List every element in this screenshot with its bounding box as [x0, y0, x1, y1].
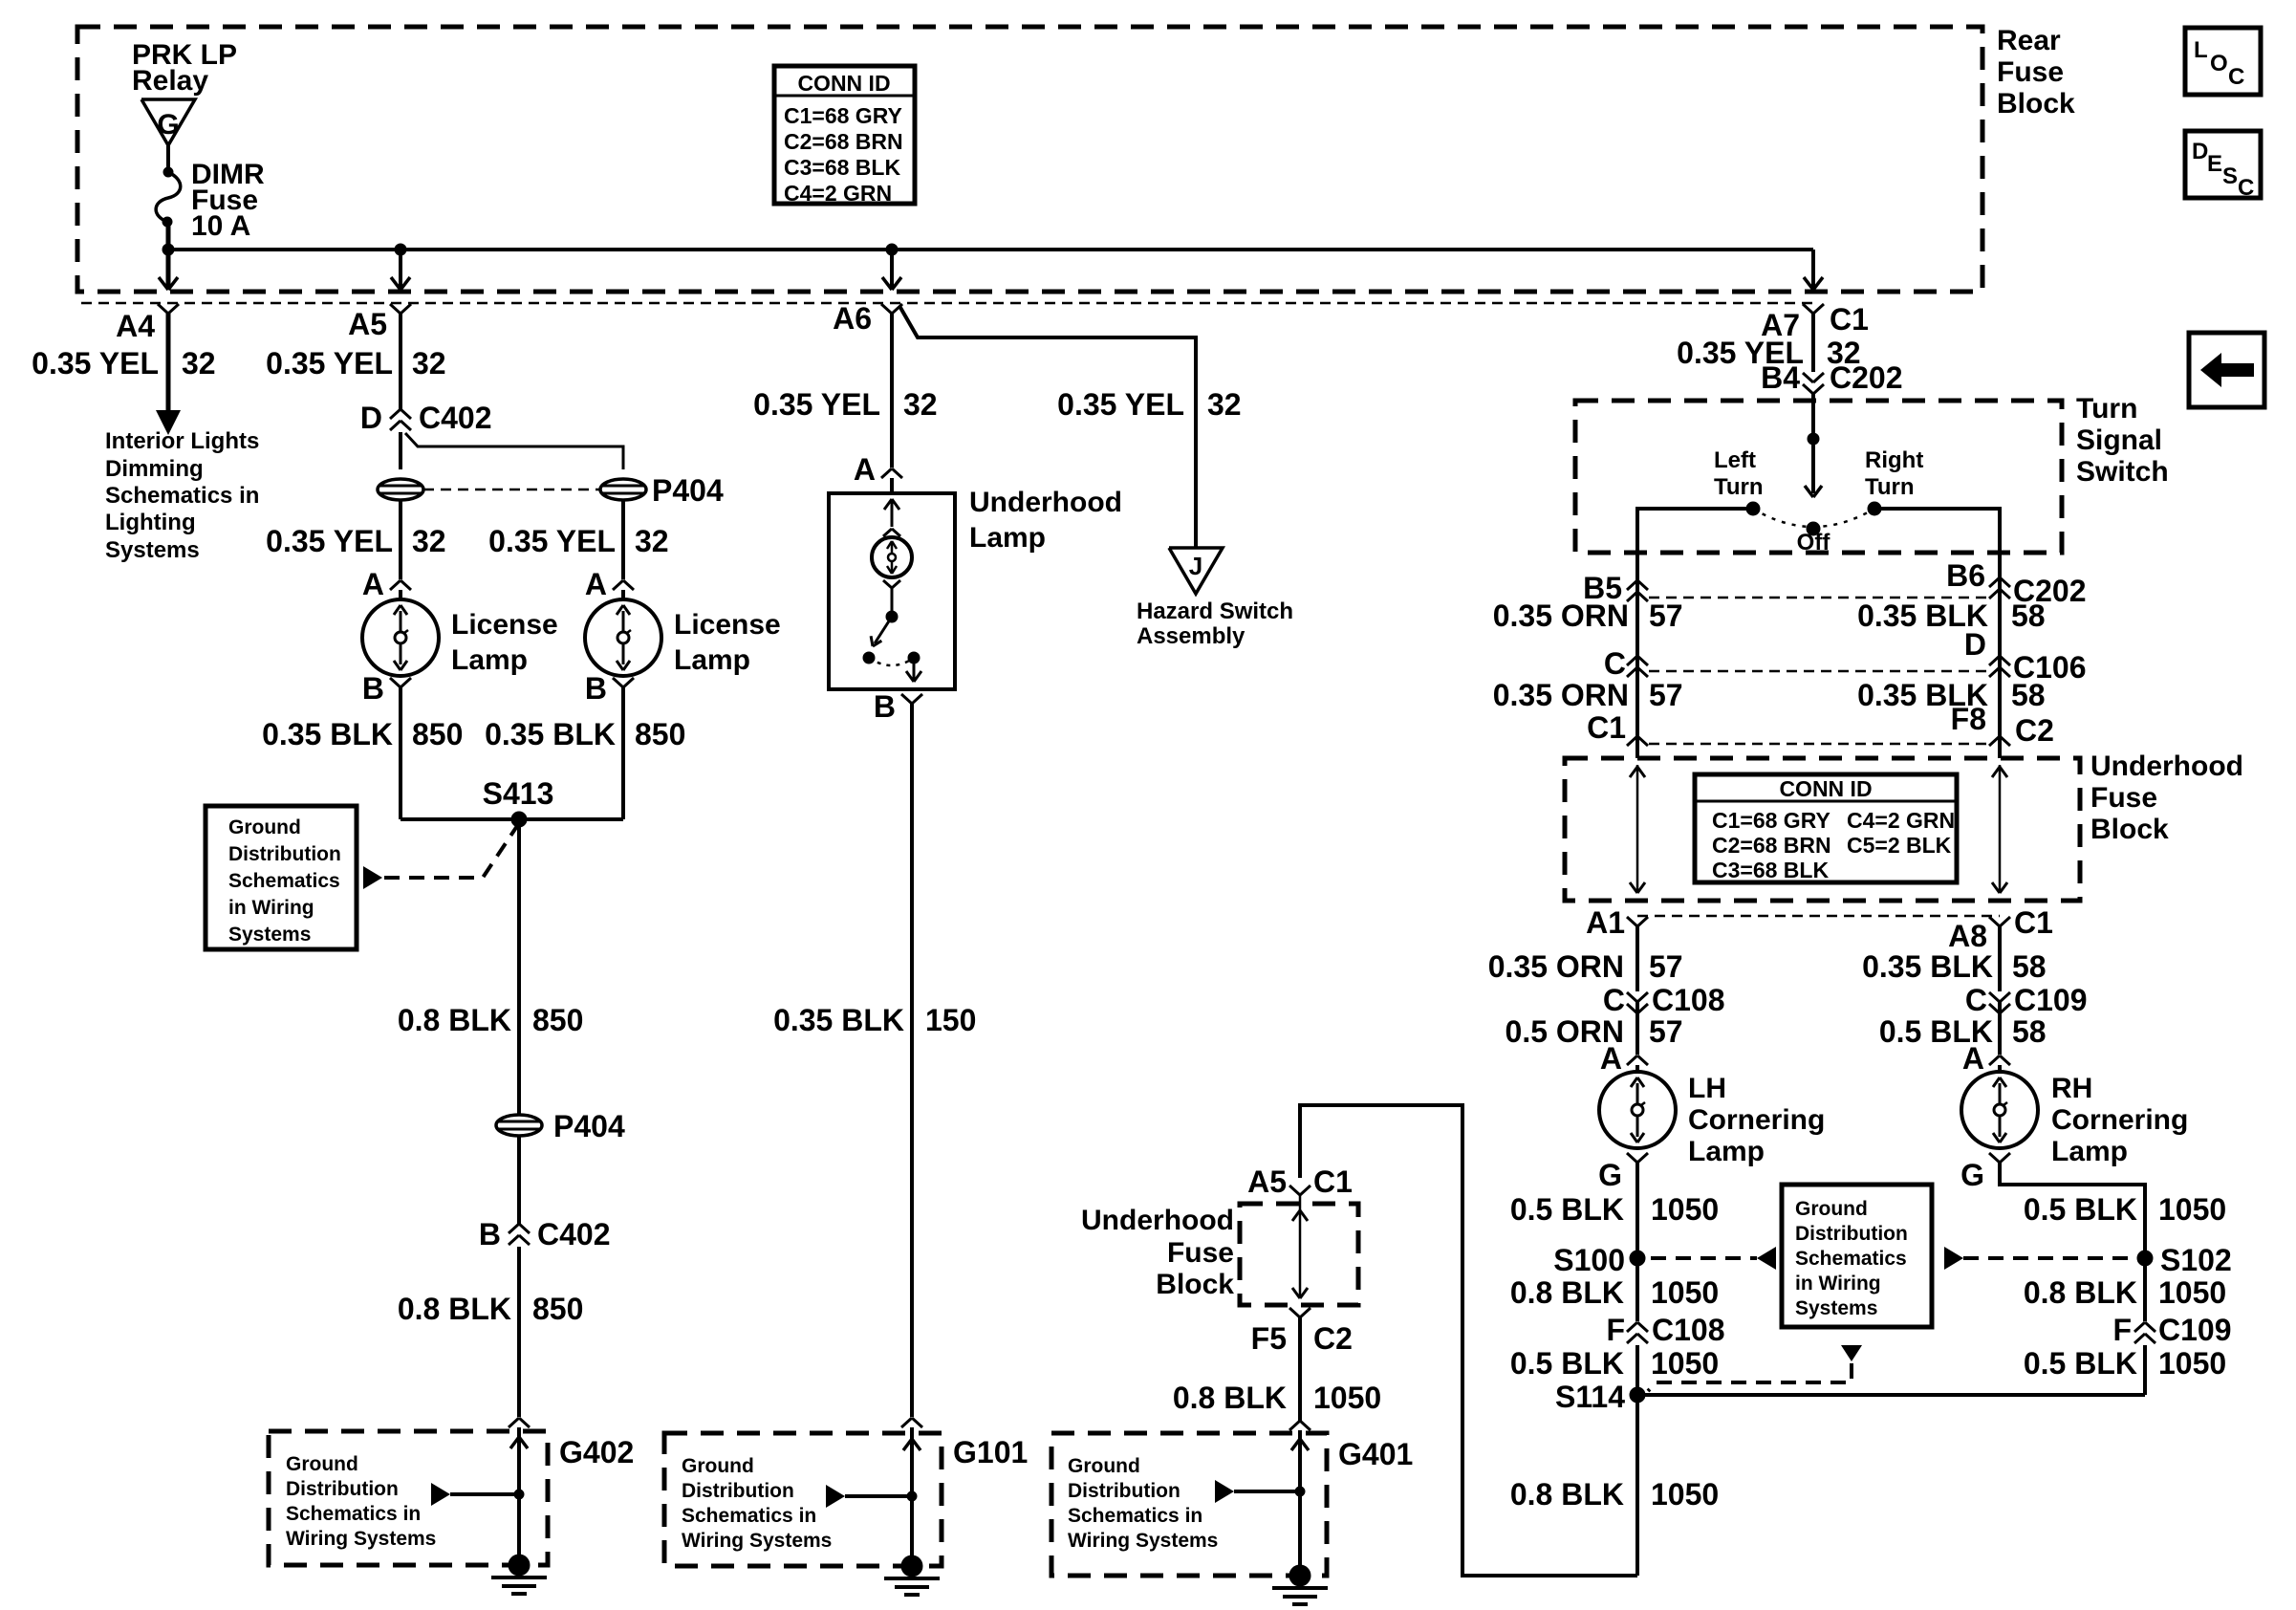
svg-text:Schematics in: Schematics in — [105, 483, 259, 509]
wire 0.8 BLK 1050 RH — [2143, 1258, 2147, 1321]
svg-text:Lamp: Lamp — [674, 644, 750, 676]
svg-text:0.8 BLK: 0.8 BLK — [1510, 1275, 1624, 1310]
svg-text:Block: Block — [1997, 88, 2075, 120]
connector C C108 — [1627, 992, 1637, 1002]
svg-text:0.35 BLK: 0.35 BLK — [485, 717, 616, 751]
svg-text:0.8 BLK: 0.8 BLK — [1173, 1381, 1287, 1415]
svg-text:C4=2 GRN: C4=2 GRN — [784, 181, 892, 206]
svg-text:C1: C1 — [2014, 905, 2053, 940]
connector into G402 — [509, 1418, 519, 1427]
connector B4 C202 — [1803, 373, 1813, 382]
svg-text:Schematics in: Schematics in — [682, 1505, 816, 1527]
wire 0.5 BLK 1050 LH — [1635, 1163, 1639, 1258]
connector F5 C2 — [1289, 1308, 1300, 1317]
svg-text:A6: A6 — [833, 301, 872, 336]
svg-text:Lamp: Lamp — [969, 522, 1046, 554]
ground G402 — [509, 1555, 530, 1576]
svg-text:0.35 BLK: 0.35 BLK — [1862, 949, 1993, 984]
svg-text:C: C — [2228, 64, 2244, 90]
svg-text:C2=68 BRN: C2=68 BRN — [1712, 833, 1831, 858]
svg-text:Switch: Switch — [2076, 456, 2169, 488]
pin A LH cornering lamp — [1627, 1055, 1637, 1065]
svg-text:Systems: Systems — [1795, 1297, 1877, 1319]
switch arc — [1753, 509, 1874, 527]
svg-text:10 A: 10 A — [191, 210, 250, 242]
svg-text:Lamp: Lamp — [2051, 1136, 2128, 1167]
wire left license lamp 0.35 YEL 32 — [399, 500, 402, 579]
svg-text:0.5 BLK: 0.5 BLK — [1510, 1346, 1624, 1381]
svg-text:Hazard Switch: Hazard Switch — [1137, 598, 1293, 624]
svg-text:A5: A5 — [1247, 1164, 1287, 1199]
svg-text:Schematics: Schematics — [228, 870, 340, 892]
svg-text:1050: 1050 — [1651, 1192, 1719, 1227]
svg-text:License: License — [451, 609, 558, 641]
svg-text:G401: G401 — [1338, 1437, 1413, 1471]
connector D C106 right — [1989, 656, 2000, 665]
svg-text:Fuse: Fuse — [1997, 56, 2064, 88]
wire drop A4 with arrow — [166, 250, 171, 289]
G101 leader arrow — [826, 1485, 845, 1508]
connector B6 C202 — [1989, 577, 2000, 587]
svg-text:0.5 BLK: 0.5 BLK — [1510, 1192, 1624, 1227]
svg-text:LH: LH — [1688, 1073, 1726, 1104]
pin B underhood lamp — [901, 694, 912, 704]
underhood lamp bulb — [872, 537, 912, 577]
svg-text:C3=68 BLK: C3=68 BLK — [1712, 858, 1829, 882]
svg-text:Underhood: Underhood — [1081, 1205, 1234, 1236]
LH cornering lamp — [1599, 1072, 1676, 1148]
svg-text:0.35 YEL: 0.35 YEL — [266, 524, 393, 558]
svg-text:Turn: Turn — [1714, 474, 1764, 500]
svg-text:Wiring Systems: Wiring Systems — [682, 1530, 832, 1552]
wire into turn signal switch — [1811, 394, 1815, 439]
svg-text:0.35 YEL: 0.35 YEL — [266, 346, 393, 381]
underhood fuse block small dashed box — [1240, 1204, 1358, 1305]
svg-text:Systems: Systems — [105, 537, 200, 563]
ground distribution note box left — [206, 806, 357, 949]
connector F C109 — [2134, 1322, 2145, 1332]
svg-text:CONN ID: CONN ID — [797, 71, 890, 96]
connector pin A5 — [390, 304, 401, 314]
wire right license lamp 0.35 YEL 32 — [621, 500, 625, 579]
svg-text:B: B — [362, 671, 384, 706]
wire drop A6 with arrow — [890, 250, 894, 289]
svg-text:RH: RH — [2051, 1073, 2092, 1104]
svg-text:1050: 1050 — [2158, 1192, 2226, 1227]
svg-text:C: C — [2238, 175, 2254, 201]
svg-text:S100: S100 — [1553, 1243, 1625, 1277]
svg-text:C1=68 GRY: C1=68 GRY — [784, 103, 902, 128]
svg-text:in Wiring: in Wiring — [228, 897, 314, 919]
svg-text:E: E — [2207, 151, 2222, 177]
svg-text:0.8 BLK: 0.8 BLK — [1510, 1477, 1624, 1512]
svg-text:Distribution: Distribution — [1795, 1223, 1908, 1245]
svg-text:Block: Block — [2090, 814, 2169, 845]
svg-text:B: B — [479, 1217, 501, 1251]
C1 C2 dashed interface — [1649, 743, 1988, 746]
svg-text:32: 32 — [182, 346, 216, 381]
svg-text:0.8 BLK: 0.8 BLK — [2024, 1275, 2137, 1310]
bus wire inside rear fuse block — [168, 248, 1813, 251]
wire A5 0.35 YEL 32 — [399, 314, 402, 409]
svg-text:Interior Lights: Interior Lights — [105, 428, 259, 454]
connector A8 C1 — [1989, 917, 2000, 926]
svg-text:B: B — [585, 671, 607, 706]
svg-text:Ground: Ground — [682, 1455, 754, 1477]
wire 0.5 BLK 58 — [1998, 1002, 2002, 1055]
underhood lamp internal chevron — [883, 529, 892, 536]
small fuse block internal wire — [1299, 1195, 1302, 1298]
wire to C402 B — [517, 1136, 521, 1224]
svg-text:0.35 YEL: 0.35 YEL — [32, 346, 159, 381]
svg-text:C109: C109 — [2014, 983, 2088, 1017]
svg-text:0.5 BLK: 0.5 BLK — [2024, 1346, 2137, 1381]
svg-text:C2: C2 — [2015, 713, 2054, 748]
ground G401 — [1289, 1565, 1310, 1586]
svg-text:Assembly: Assembly — [1137, 623, 1245, 649]
leader note box to S102 — [1944, 1247, 1963, 1270]
svg-text:P404: P404 — [652, 473, 724, 508]
junction dot at A5 drop — [395, 244, 406, 255]
rear fuse block dashed outline — [77, 27, 1982, 292]
svg-text:A8: A8 — [1948, 919, 1987, 953]
svg-text:58: 58 — [2011, 678, 2046, 712]
svg-text:A: A — [362, 567, 384, 601]
svg-text:C: C — [1965, 983, 1987, 1017]
svg-text:57: 57 — [1649, 1014, 1683, 1049]
svg-text:C1: C1 — [1587, 710, 1626, 745]
CONN ID table rear fuse block — [774, 66, 915, 204]
svg-text:850: 850 — [532, 1003, 583, 1037]
svg-text:Signal: Signal — [2076, 424, 2162, 456]
svg-text:CONN ID: CONN ID — [1779, 776, 1872, 801]
svg-text:G101: G101 — [953, 1435, 1028, 1469]
wire C402 to splice branch — [399, 432, 402, 469]
svg-text:F5: F5 — [1251, 1321, 1287, 1356]
connector B C402 — [509, 1224, 519, 1233]
wire drop A7 with arrow — [1811, 250, 1815, 289]
splice S102 — [2137, 1251, 2153, 1266]
svg-text:Turn: Turn — [2076, 393, 2137, 424]
ground G101 — [901, 1556, 922, 1577]
wire 0.5 ORN 57 — [1635, 1002, 1639, 1055]
svg-text:D: D — [1964, 627, 1986, 662]
pin B left license lamp — [390, 678, 401, 687]
connector into G401 — [1289, 1421, 1300, 1430]
svg-text:C109: C109 — [2158, 1313, 2232, 1347]
svg-text:Turn: Turn — [1865, 474, 1915, 500]
svg-text:0.35 YEL: 0.35 YEL — [1057, 387, 1184, 422]
svg-text:Underhood: Underhood — [969, 487, 1122, 518]
svg-text:P404: P404 — [553, 1109, 625, 1143]
svg-text:1050: 1050 — [1651, 1346, 1719, 1381]
wire A4 0.35 YEL 32 — [166, 314, 171, 410]
wire drop A5 with arrow — [399, 250, 402, 289]
svg-text:Wiring Systems: Wiring Systems — [286, 1528, 436, 1550]
svg-text:Schematics in: Schematics in — [286, 1503, 421, 1525]
svg-text:32: 32 — [903, 387, 938, 422]
connector pin A4 — [158, 304, 168, 314]
svg-text:F: F — [2112, 1313, 2132, 1347]
LOC icon box — [2185, 28, 2261, 95]
left turn contact — [1746, 502, 1760, 515]
svg-text:Fuse: Fuse — [1167, 1237, 1234, 1269]
connector B5 — [1627, 580, 1637, 590]
wire 0.8 BLK 850 upper — [517, 819, 521, 1115]
fuse block internal wire left — [1636, 765, 1639, 891]
svg-text:C402: C402 — [419, 401, 492, 435]
relay output triangle G — [141, 99, 195, 145]
svg-text:Left: Left — [1714, 447, 1756, 473]
connector pin A7 C1 — [1803, 304, 1813, 314]
splice S413 — [401, 817, 623, 821]
svg-text:A: A — [1962, 1041, 1984, 1076]
svg-text:850: 850 — [412, 717, 463, 751]
wire 0.35 BLK 150 — [910, 704, 914, 1417]
svg-text:L: L — [2194, 37, 2208, 63]
leader arrow to S413 — [363, 866, 382, 889]
underhood lamp internal connector — [883, 580, 892, 588]
svg-text:1050: 1050 — [1313, 1381, 1381, 1415]
wire A7 0.35 YEL 32 — [1811, 314, 1815, 372]
svg-text:0.5 BLK: 0.5 BLK — [2024, 1192, 2137, 1227]
svg-text:Lighting: Lighting — [105, 510, 196, 535]
svg-text:32: 32 — [635, 524, 669, 558]
G402 ground dist box — [269, 1431, 548, 1565]
G401 leader arrow — [1215, 1480, 1234, 1503]
G101 ground dist box — [664, 1433, 942, 1566]
wire 0.8 BLK 1050 bottom — [1635, 1395, 1639, 1576]
wire RH jog to S102 — [2000, 1168, 2145, 1258]
connector F8 C2 into underhood fuse block — [1989, 736, 2000, 746]
wire 0.5 BLK 1050 to S114 left — [1635, 1345, 1639, 1395]
switch wiper arrow — [1811, 439, 1815, 493]
svg-text:C108: C108 — [1652, 983, 1725, 1017]
connector C1 dashed interface line — [81, 302, 1813, 305]
license lamp left — [362, 599, 439, 676]
svg-text:Rear: Rear — [1997, 25, 2061, 56]
svg-text:A: A — [585, 567, 607, 601]
svg-text:Distribution: Distribution — [228, 843, 341, 865]
svg-text:F8: F8 — [1951, 702, 1986, 736]
connector C1 into underhood fuse block — [1627, 736, 1637, 746]
svg-text:A1: A1 — [1586, 905, 1625, 940]
junction dot turn signal feed — [1808, 433, 1819, 445]
svg-text:J: J — [1189, 552, 1202, 580]
svg-text:0.8 BLK: 0.8 BLK — [398, 1292, 511, 1326]
svg-text:G: G — [1598, 1158, 1622, 1192]
svg-text:C1: C1 — [1830, 302, 1869, 337]
svg-text:C1=68 GRY: C1=68 GRY — [1712, 808, 1830, 833]
svg-text:C108: C108 — [1652, 1313, 1725, 1347]
svg-text:G: G — [1960, 1158, 1984, 1192]
wire fuse to bus — [166, 222, 171, 250]
svg-text:Distribution: Distribution — [286, 1478, 399, 1500]
junction dot at A6 drop — [886, 244, 898, 255]
svg-text:Ground: Ground — [286, 1453, 358, 1475]
DESC icon box — [2185, 131, 2261, 198]
svg-text:S413: S413 — [483, 776, 554, 811]
svg-text:32: 32 — [412, 346, 446, 381]
turn signal switch dashed box — [1575, 401, 2062, 553]
G401 ground dist box — [1051, 1433, 1327, 1576]
svg-text:0.35 ORN: 0.35 ORN — [1488, 949, 1624, 984]
svg-text:O: O — [2210, 51, 2228, 76]
svg-text:A5: A5 — [348, 307, 387, 341]
svg-text:in Wiring: in Wiring — [1795, 1273, 1881, 1295]
wire 0.8 BLK 1050 LH — [1635, 1258, 1639, 1321]
svg-text:1050: 1050 — [1651, 1275, 1719, 1310]
connector F C108 — [1627, 1322, 1637, 1332]
svg-text:0.35 ORN: 0.35 ORN — [1493, 678, 1629, 712]
connector into G101 — [901, 1418, 912, 1427]
svg-text:Schematics: Schematics — [1795, 1248, 1907, 1270]
svg-text:G: G — [157, 109, 179, 141]
svg-text:C4=2 GRN: C4=2 GRN — [1847, 808, 1955, 833]
underhood lamp box — [829, 493, 955, 689]
svg-text:57: 57 — [1649, 949, 1683, 984]
pin A left license lamp — [390, 580, 401, 590]
wire left 0.35 BLK 850 — [399, 687, 402, 819]
svg-text:C202: C202 — [1830, 360, 1903, 395]
svg-text:58: 58 — [2012, 1014, 2047, 1049]
svg-text:Off: Off — [1797, 530, 1831, 555]
underhood fuse block dashed box — [1565, 758, 2080, 901]
ground distribution note box middle — [1782, 1185, 1932, 1327]
wire 0.8 BLK 850 lower — [517, 1247, 521, 1417]
arrow to interior lights dimming — [156, 410, 181, 435]
pin G RH cornering lamp — [1989, 1153, 2000, 1163]
C202 dashed interface — [1649, 597, 1988, 599]
underhood lamp internal feed arrow — [891, 501, 894, 527]
wire left turn to B5 — [1637, 509, 1753, 758]
connector C C109 — [1989, 992, 2000, 1002]
svg-text:32: 32 — [1207, 387, 1242, 422]
svg-text:0.35 YEL: 0.35 YEL — [753, 387, 880, 422]
wire 0.5 BLK 1050 to S114 right — [2143, 1345, 2147, 1395]
svg-text:58: 58 — [2011, 598, 2046, 633]
svg-text:C: C — [1603, 983, 1625, 1017]
connector A5 C1 small fuse block — [1289, 1186, 1300, 1195]
wire 0.35 BLK 58 third — [1998, 926, 2002, 991]
svg-text:A4: A4 — [116, 309, 155, 343]
svg-text:License: License — [674, 609, 781, 641]
svg-text:1050: 1050 — [1651, 1477, 1719, 1512]
license lamp right — [585, 599, 661, 676]
inline connector P404 left — [378, 479, 423, 500]
splice S114 — [1637, 1393, 2145, 1397]
splice S100 — [1630, 1251, 1645, 1266]
connector C C106 left — [1627, 656, 1637, 665]
back arrow icon box — [2189, 333, 2264, 407]
svg-text:Ground: Ground — [228, 816, 301, 838]
fuse block internal wire right — [1999, 765, 2002, 891]
svg-text:0.8 BLK: 0.8 BLK — [398, 1003, 511, 1037]
svg-text:F: F — [1606, 1313, 1625, 1347]
svg-text:C2: C2 — [1313, 1321, 1353, 1356]
wire A6 0.35 YEL 32 — [890, 314, 894, 468]
svg-text:Lamp: Lamp — [1688, 1136, 1765, 1167]
svg-text:Distribution: Distribution — [682, 1480, 794, 1502]
svg-text:Wiring Systems: Wiring Systems — [1068, 1530, 1218, 1552]
svg-text:Schematics in: Schematics in — [1068, 1505, 1202, 1527]
svg-text:Lamp: Lamp — [451, 644, 528, 676]
svg-text:C3=68 BLK: C3=68 BLK — [784, 155, 900, 180]
svg-text:Block: Block — [1156, 1269, 1234, 1300]
svg-text:Right: Right — [1865, 447, 1923, 473]
svg-text:0.35 YEL: 0.35 YEL — [488, 524, 616, 558]
svg-text:Cornering: Cornering — [2051, 1104, 2188, 1136]
svg-text:Underhood: Underhood — [2090, 751, 2243, 782]
svg-text:Ground: Ground — [1795, 1198, 1868, 1220]
svg-text:58: 58 — [2012, 949, 2047, 984]
pin A right license lamp — [613, 580, 623, 590]
svg-text:Fuse: Fuse — [2090, 782, 2157, 814]
wire right turn to B6 — [1874, 509, 2000, 758]
svg-text:B: B — [874, 689, 896, 724]
pin A underhood lamp — [881, 468, 892, 478]
svg-text:G402: G402 — [559, 1435, 634, 1469]
connector A1 — [1627, 917, 1637, 926]
svg-text:S: S — [2222, 163, 2238, 189]
svg-text:A: A — [854, 452, 876, 487]
right turn contact — [1868, 502, 1881, 515]
underhood lamp switch — [891, 588, 894, 617]
RH cornering lamp — [1961, 1072, 2038, 1148]
svg-text:C402: C402 — [537, 1217, 611, 1251]
pin B right license lamp — [613, 678, 623, 687]
svg-text:150: 150 — [925, 1003, 976, 1037]
svg-text:A: A — [1600, 1041, 1622, 1076]
svg-text:Cornering: Cornering — [1688, 1104, 1825, 1136]
dashed link between P404 halves — [423, 489, 600, 491]
connector D C402 — [390, 409, 401, 419]
svg-text:S102: S102 — [2160, 1243, 2232, 1277]
inline connector P404 right — [600, 479, 646, 500]
leader note box to S114 — [1841, 1345, 1862, 1361]
hazard switch triangle J — [1169, 548, 1223, 594]
svg-text:0.35 BLK: 0.35 BLK — [262, 717, 393, 751]
G402 leader arrow — [431, 1483, 450, 1506]
svg-text:C5=2 BLK: C5=2 BLK — [1847, 833, 1952, 858]
pin A RH cornering lamp — [1989, 1055, 2000, 1065]
pin G LH cornering lamp — [1627, 1153, 1637, 1163]
svg-text:0.35 ORN: 0.35 ORN — [1493, 598, 1629, 633]
svg-text:1050: 1050 — [2158, 1275, 2226, 1310]
routing wire to underhood fuse block small — [1300, 1105, 1637, 1576]
svg-text:C2=68 BRN: C2=68 BRN — [784, 129, 903, 154]
branch wire to hazard switch — [899, 306, 1196, 547]
svg-text:C1: C1 — [1313, 1164, 1353, 1199]
wire 0.35 ORN 57 third — [1635, 926, 1639, 991]
wire right 0.35 BLK 850 — [621, 687, 625, 819]
wire relay to fuse — [166, 145, 170, 172]
off position dot — [1807, 522, 1820, 535]
svg-text:1050: 1050 — [2158, 1346, 2226, 1381]
svg-text:Dimming: Dimming — [105, 456, 204, 482]
C106 dashed interface — [1649, 670, 1988, 673]
svg-text:B4: B4 — [1761, 360, 1800, 395]
svg-text:Distribution: Distribution — [1068, 1480, 1180, 1502]
inline connector P404 ground — [496, 1115, 542, 1136]
svg-text:Ground: Ground — [1068, 1455, 1140, 1477]
svg-text:Systems: Systems — [228, 924, 311, 946]
svg-text:32: 32 — [412, 524, 446, 558]
svg-text:D: D — [360, 401, 382, 435]
svg-text:57: 57 — [1649, 678, 1683, 712]
svg-text:850: 850 — [532, 1292, 583, 1326]
svg-text:0.35 BLK: 0.35 BLK — [773, 1003, 904, 1037]
